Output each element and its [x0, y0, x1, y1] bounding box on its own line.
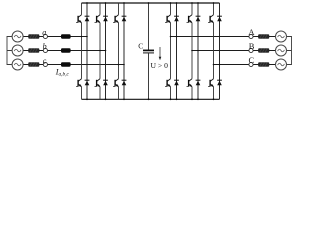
diode V9 top right [217, 16, 222, 21]
leg R2 lead wire [191, 3, 193, 99]
leg L2 lead wire [99, 3, 101, 99]
junction dots phase taps [81, 36, 221, 66]
wire phase a [23, 36, 87, 38]
leg R3 lead wire [213, 3, 215, 99]
load block C (hatched) [258, 63, 269, 67]
resistor Ra (hatched block) [29, 35, 40, 39]
wire phase b [23, 50, 105, 52]
svg-text:C: C [138, 41, 143, 50]
svg-text:b: b [43, 42, 47, 51]
transistor V1 top [76, 15, 82, 23]
node a terminal [43, 34, 47, 38]
diode V4 bottom [85, 80, 90, 85]
svg-text:U > 0: U > 0 [151, 61, 169, 70]
node C terminal [249, 62, 253, 66]
svg-text:B: B [249, 41, 255, 51]
AC source UB right [276, 45, 287, 56]
leg L3 lead wire [118, 3, 120, 99]
AC source UA right [276, 31, 287, 42]
AC source Uc [12, 59, 23, 70]
diode V11 bottom right [196, 80, 201, 85]
wire phase B [192, 50, 276, 52]
wire phase C [214, 64, 276, 66]
svg-text:Ia,b,c: Ia,b,c [55, 68, 70, 78]
wire phase c [23, 64, 124, 66]
leg R2 diode wire [197, 3, 199, 99]
AC source Ub [12, 45, 23, 56]
leg R1 diode wire [176, 3, 178, 99]
leg L1 lead wire [81, 3, 83, 99]
diode V8 top right [196, 16, 201, 21]
diode V10 bottom right [174, 80, 179, 85]
leg L1 diode wire [86, 3, 88, 99]
transistor V10 bottom right [165, 79, 171, 87]
load block B (hatched) [258, 49, 269, 53]
diode V3 top [122, 16, 127, 21]
transistor V7 top right [165, 15, 171, 23]
resistor Rc (hatched block) [29, 63, 40, 67]
node B terminal [249, 48, 253, 52]
transistor V3 top [113, 15, 119, 23]
inductor La (black block) [61, 34, 71, 38]
diode V2 top [103, 16, 108, 21]
leg R1 lead wire [170, 3, 172, 99]
svg-text:C: C [249, 55, 255, 65]
resistor Rb (hatched block) [29, 49, 40, 53]
diode V7 top right [174, 16, 179, 21]
transistor V9 top right [208, 15, 214, 23]
load block A (hatched) [258, 35, 269, 39]
capacitor C bottom plate [143, 52, 154, 54]
transistor V11 bottom right [187, 79, 193, 87]
svg-text:A: A [248, 27, 255, 37]
leg R3 diode wire [219, 3, 221, 99]
inductor Lb (black block) [61, 48, 71, 52]
diode V5 bottom [103, 80, 108, 85]
diode V6 bottom [122, 80, 127, 85]
inductor Lc (black block) [61, 62, 71, 66]
left neutral bus [7, 37, 12, 65]
AC source Ua [12, 31, 23, 42]
transistor V5 bottom [95, 79, 101, 87]
AC source UC right [276, 59, 287, 70]
junction dots top rail [86, 2, 214, 4]
leg L2 diode wire [105, 3, 107, 99]
capacitor C top plate [143, 49, 154, 51]
right neutral bus [286, 37, 291, 65]
transistor V2 top [95, 15, 101, 23]
transistor V6 bottom [113, 79, 119, 87]
voltage arrow U [159, 47, 161, 57]
junction dots bottom rail [86, 98, 214, 100]
top DC rail [82, 2, 220, 4]
capacitor C branch wire [148, 3, 150, 99]
svg-text:a: a [42, 28, 46, 37]
diode V12 bottom right [217, 80, 222, 85]
transistor V4 bottom [76, 79, 82, 87]
node c terminal [43, 62, 47, 66]
diode V1 top [85, 16, 90, 21]
node A terminal [249, 34, 253, 38]
transistor V8 top right [187, 15, 193, 23]
node b terminal [43, 48, 47, 52]
bottom DC rail [82, 98, 220, 100]
wire phase A [171, 36, 276, 38]
leg L3 diode wire [123, 3, 125, 99]
transistor V12 bottom right [208, 79, 214, 87]
svg-text:c: c [43, 56, 47, 65]
